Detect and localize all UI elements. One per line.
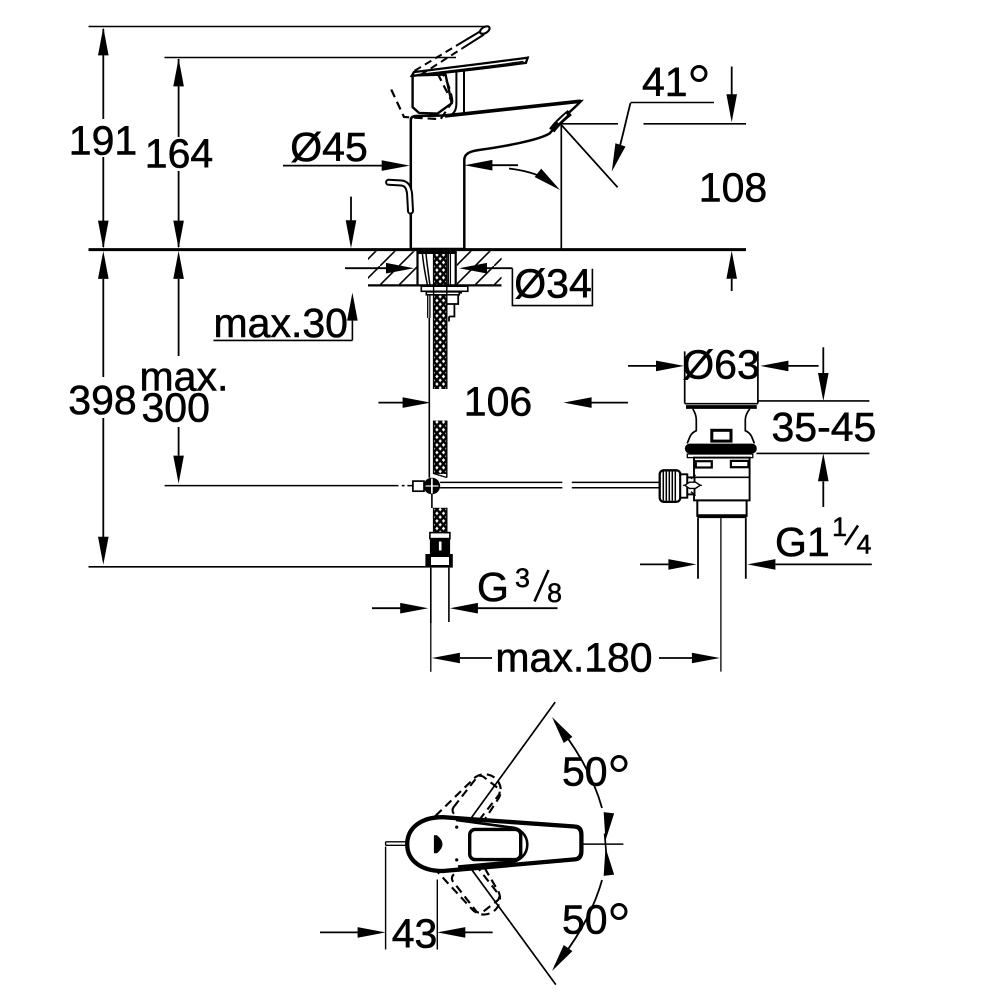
svg-text:1: 1 bbox=[832, 512, 847, 542]
flange lip bbox=[687, 454, 753, 458]
G114 left arrow bbox=[640, 563, 668, 565]
398 bottom extension line bbox=[89, 566, 426, 568]
D34 leader box bbox=[512, 268, 592, 305]
D34 right arrow bbox=[487, 267, 512, 269]
horizontal pop-up rod bbox=[440, 482, 562, 487]
svg-text:max.180: max.180 bbox=[495, 635, 652, 681]
svg-text:108: 108 bbox=[699, 165, 767, 211]
D63 left arrow bbox=[628, 365, 657, 367]
rod top view bbox=[386, 842, 409, 846]
svg-text:3: 3 bbox=[515, 563, 530, 593]
lever blade (closed position) bbox=[412, 58, 528, 76]
mounting nut bbox=[426, 292, 459, 295]
svg-text:35-45: 35-45 bbox=[772, 404, 877, 450]
spout aerator beak bbox=[552, 113, 570, 131]
black D mark bbox=[434, 835, 443, 853]
lever neck bbox=[447, 71, 456, 116]
drain flange bbox=[685, 444, 757, 454]
D45 right arrow bbox=[491, 164, 518, 166]
deck hatch right bbox=[457, 251, 502, 285]
coupling blocks bbox=[680, 474, 687, 497]
svg-text:G1: G1 bbox=[775, 519, 830, 565]
svg-text:Ø45: Ø45 bbox=[290, 124, 368, 170]
upper 50 deg diagonal bbox=[433, 702, 555, 870]
axis crossing tick bbox=[605, 834, 607, 854]
svg-text:43: 43 bbox=[392, 911, 438, 957]
max180 right arrow bbox=[659, 657, 692, 659]
drain body bbox=[694, 458, 750, 501]
G38 left arrow bbox=[372, 607, 401, 609]
43 extension lines bbox=[386, 847, 438, 950]
pivot square detail bbox=[712, 430, 731, 441]
G38 fitting body bbox=[430, 539, 450, 554]
svg-text:50: 50 bbox=[562, 897, 608, 943]
dashed knob outline (rotated) bbox=[391, 90, 452, 120]
dashed lever rotated down bbox=[425, 829, 512, 924]
hose braid segment 3 bbox=[434, 508, 447, 533]
D34 left arrow bbox=[345, 267, 388, 269]
deck top line bbox=[89, 248, 747, 251]
rod clamp block bbox=[413, 481, 424, 491]
hose braid segment 1 bbox=[434, 295, 447, 389]
35-45 arrows bbox=[822, 347, 824, 373]
lever top view bbox=[456, 820, 527, 867]
faucet top view outline bbox=[407, 817, 581, 871]
dashed lever rotated up bbox=[423, 764, 510, 859]
svg-text:164: 164 bbox=[145, 131, 213, 177]
dimension 191 vertical line bbox=[102, 29, 104, 247]
G38 fitting collar bbox=[430, 533, 450, 539]
svg-text:8: 8 bbox=[547, 578, 562, 608]
reference line 164 level bbox=[165, 57, 457, 59]
max300 vertical line bbox=[178, 279, 180, 456]
max180 left extension bbox=[430, 623, 432, 671]
43 left arrow bbox=[320, 931, 358, 933]
svg-text:41: 41 bbox=[642, 59, 688, 105]
tailpipe bbox=[698, 518, 746, 579]
svg-text:max.30: max.30 bbox=[214, 300, 348, 346]
pop-up rod handle on body bbox=[389, 182, 411, 211]
diagonal 41 deg line bbox=[562, 125, 618, 187]
vertical lines right of hose in hole bbox=[448, 253, 450, 285]
ball joint bbox=[424, 478, 441, 495]
svg-text:106: 106 bbox=[464, 379, 532, 425]
alignment dots bbox=[455, 826, 458, 829]
hose braid segment 2 bbox=[434, 421, 447, 474]
svg-text:398: 398 bbox=[68, 377, 136, 423]
overflow slots bbox=[696, 461, 712, 467]
106 right arrow bbox=[590, 402, 628, 404]
106 left arrow bbox=[378, 402, 404, 404]
mounting hole edges bbox=[418, 251, 456, 285]
top reference line 191 level bbox=[89, 26, 486, 28]
35-45 extension lines bbox=[756, 401, 869, 454]
G38 right arrow bbox=[477, 607, 558, 609]
43 right arrow bbox=[465, 931, 493, 933]
svg-text:50: 50 bbox=[562, 749, 608, 795]
svg-text:G: G bbox=[477, 564, 509, 610]
upper 50 arc bbox=[555, 722, 602, 808]
spout level reference line bbox=[562, 123, 747, 125]
pull rod curve in hole bbox=[422, 253, 430, 285]
svg-text:4: 4 bbox=[857, 530, 872, 560]
G114 right arrow bbox=[775, 563, 871, 565]
lever knob (solid, closed) bbox=[413, 75, 452, 114]
svg-text:Ø63: Ø63 bbox=[682, 341, 760, 387]
41 deg down arrow bbox=[731, 67, 733, 96]
hose braid in deck bbox=[434, 251, 447, 285]
lever hole bbox=[470, 829, 521, 859]
G38 pipe stub bbox=[431, 568, 449, 624]
41 deg reference line bbox=[631, 102, 715, 104]
deck hatch left bbox=[368, 251, 417, 285]
lower 50 deg diagonal bbox=[434, 818, 556, 985]
knurled adjuster knob bbox=[660, 470, 681, 502]
G38 fitting nut bbox=[425, 554, 452, 568]
svg-text:300: 300 bbox=[142, 385, 210, 431]
108 bottom arrow (up) bbox=[731, 279, 733, 291]
seal under body in hole bbox=[418, 251, 457, 254]
spout top thick line bbox=[445, 101, 581, 116]
deck underside line bbox=[368, 284, 502, 286]
max.30 down arrow above deck bbox=[350, 197, 352, 221]
svg-text:Ø34: Ø34 bbox=[514, 261, 592, 307]
curved leader arrow to spout tip line bbox=[509, 169, 553, 184]
raised lever blade (open position) bbox=[415, 44, 459, 70]
vertical line from spout tip to deck bbox=[560, 125, 562, 249]
398 vertical line bbox=[102, 279, 104, 537]
lower 50 arc bbox=[555, 880, 602, 966]
rod stub below ball bbox=[431, 494, 433, 508]
max180 left arrow bbox=[460, 657, 492, 659]
41 deg arc bbox=[614, 103, 631, 167]
tailpipe centre extension bbox=[720, 518, 722, 672]
nut step profile right bbox=[447, 295, 458, 322]
drain plug cylinder bbox=[685, 351, 758, 403]
raised lever tip cap bbox=[479, 25, 491, 36]
washer under deck bbox=[421, 286, 468, 291]
pivot rod end detail bbox=[683, 484, 702, 486]
pull rod below deck bbox=[428, 295, 430, 318]
D45 left arrow bbox=[283, 165, 383, 167]
drain taper neck bbox=[687, 409, 696, 444]
rod centre line bbox=[165, 485, 413, 487]
drain collar bbox=[697, 500, 746, 516]
faucet body and spout outline bbox=[411, 101, 581, 249]
D63 right arrow bbox=[788, 365, 819, 367]
dimension 164 vertical line bbox=[178, 59, 180, 247]
axis line bbox=[581, 843, 623, 845]
svg-text:191: 191 bbox=[69, 118, 137, 164]
